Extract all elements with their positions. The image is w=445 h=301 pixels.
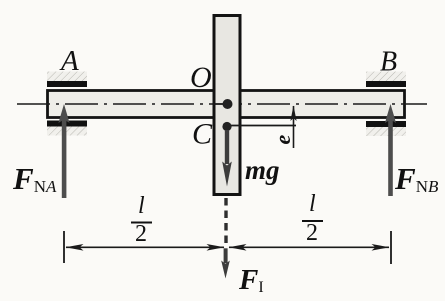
support reaction F_NA arrow [58,104,69,198]
eccentricity e dimension arrow [290,106,296,149]
bearing A lower hatch [47,127,87,136]
weight mg arrow [222,130,232,187]
left extension line [63,231,65,263]
bearing B upper cap [366,81,406,87]
svg-text:2: 2 [306,220,318,246]
bearing A lower cap [47,121,87,127]
svg-text:A: A [59,45,79,77]
bearing B lower hatch [366,127,406,136]
inertia force F_I arrow [221,248,230,278]
dimension line left l/2 [66,244,225,251]
bearing A upper cap [47,81,87,87]
center dashed line [224,198,227,245]
svg-text:2: 2 [135,221,147,247]
bearing A upper hatch [47,72,87,82]
right extension line [390,231,392,264]
rotor disk [214,16,240,195]
svg-text:C: C [192,118,213,151]
svg-text:l: l [309,191,316,217]
support reaction F_NB arrow [385,104,396,196]
svg-text:B: B [380,47,397,78]
svg-text:O: O [190,61,212,94]
svg-text:mg: mg [245,155,280,185]
axis centerline [17,103,427,105]
dimension line right l/2 [229,244,390,251]
shaft [48,91,405,118]
svg-text:l: l [138,193,145,219]
label l/2 right [302,191,323,246]
point C [222,122,231,131]
bearing B lower cap [366,121,406,127]
axis segment to O inside rotor [213,103,227,105]
svg-text:e: e [270,135,295,145]
label l/2 left [131,193,152,247]
point O [223,99,233,109]
e reference line from C [227,125,296,127]
bearing B upper hatch [366,72,406,82]
